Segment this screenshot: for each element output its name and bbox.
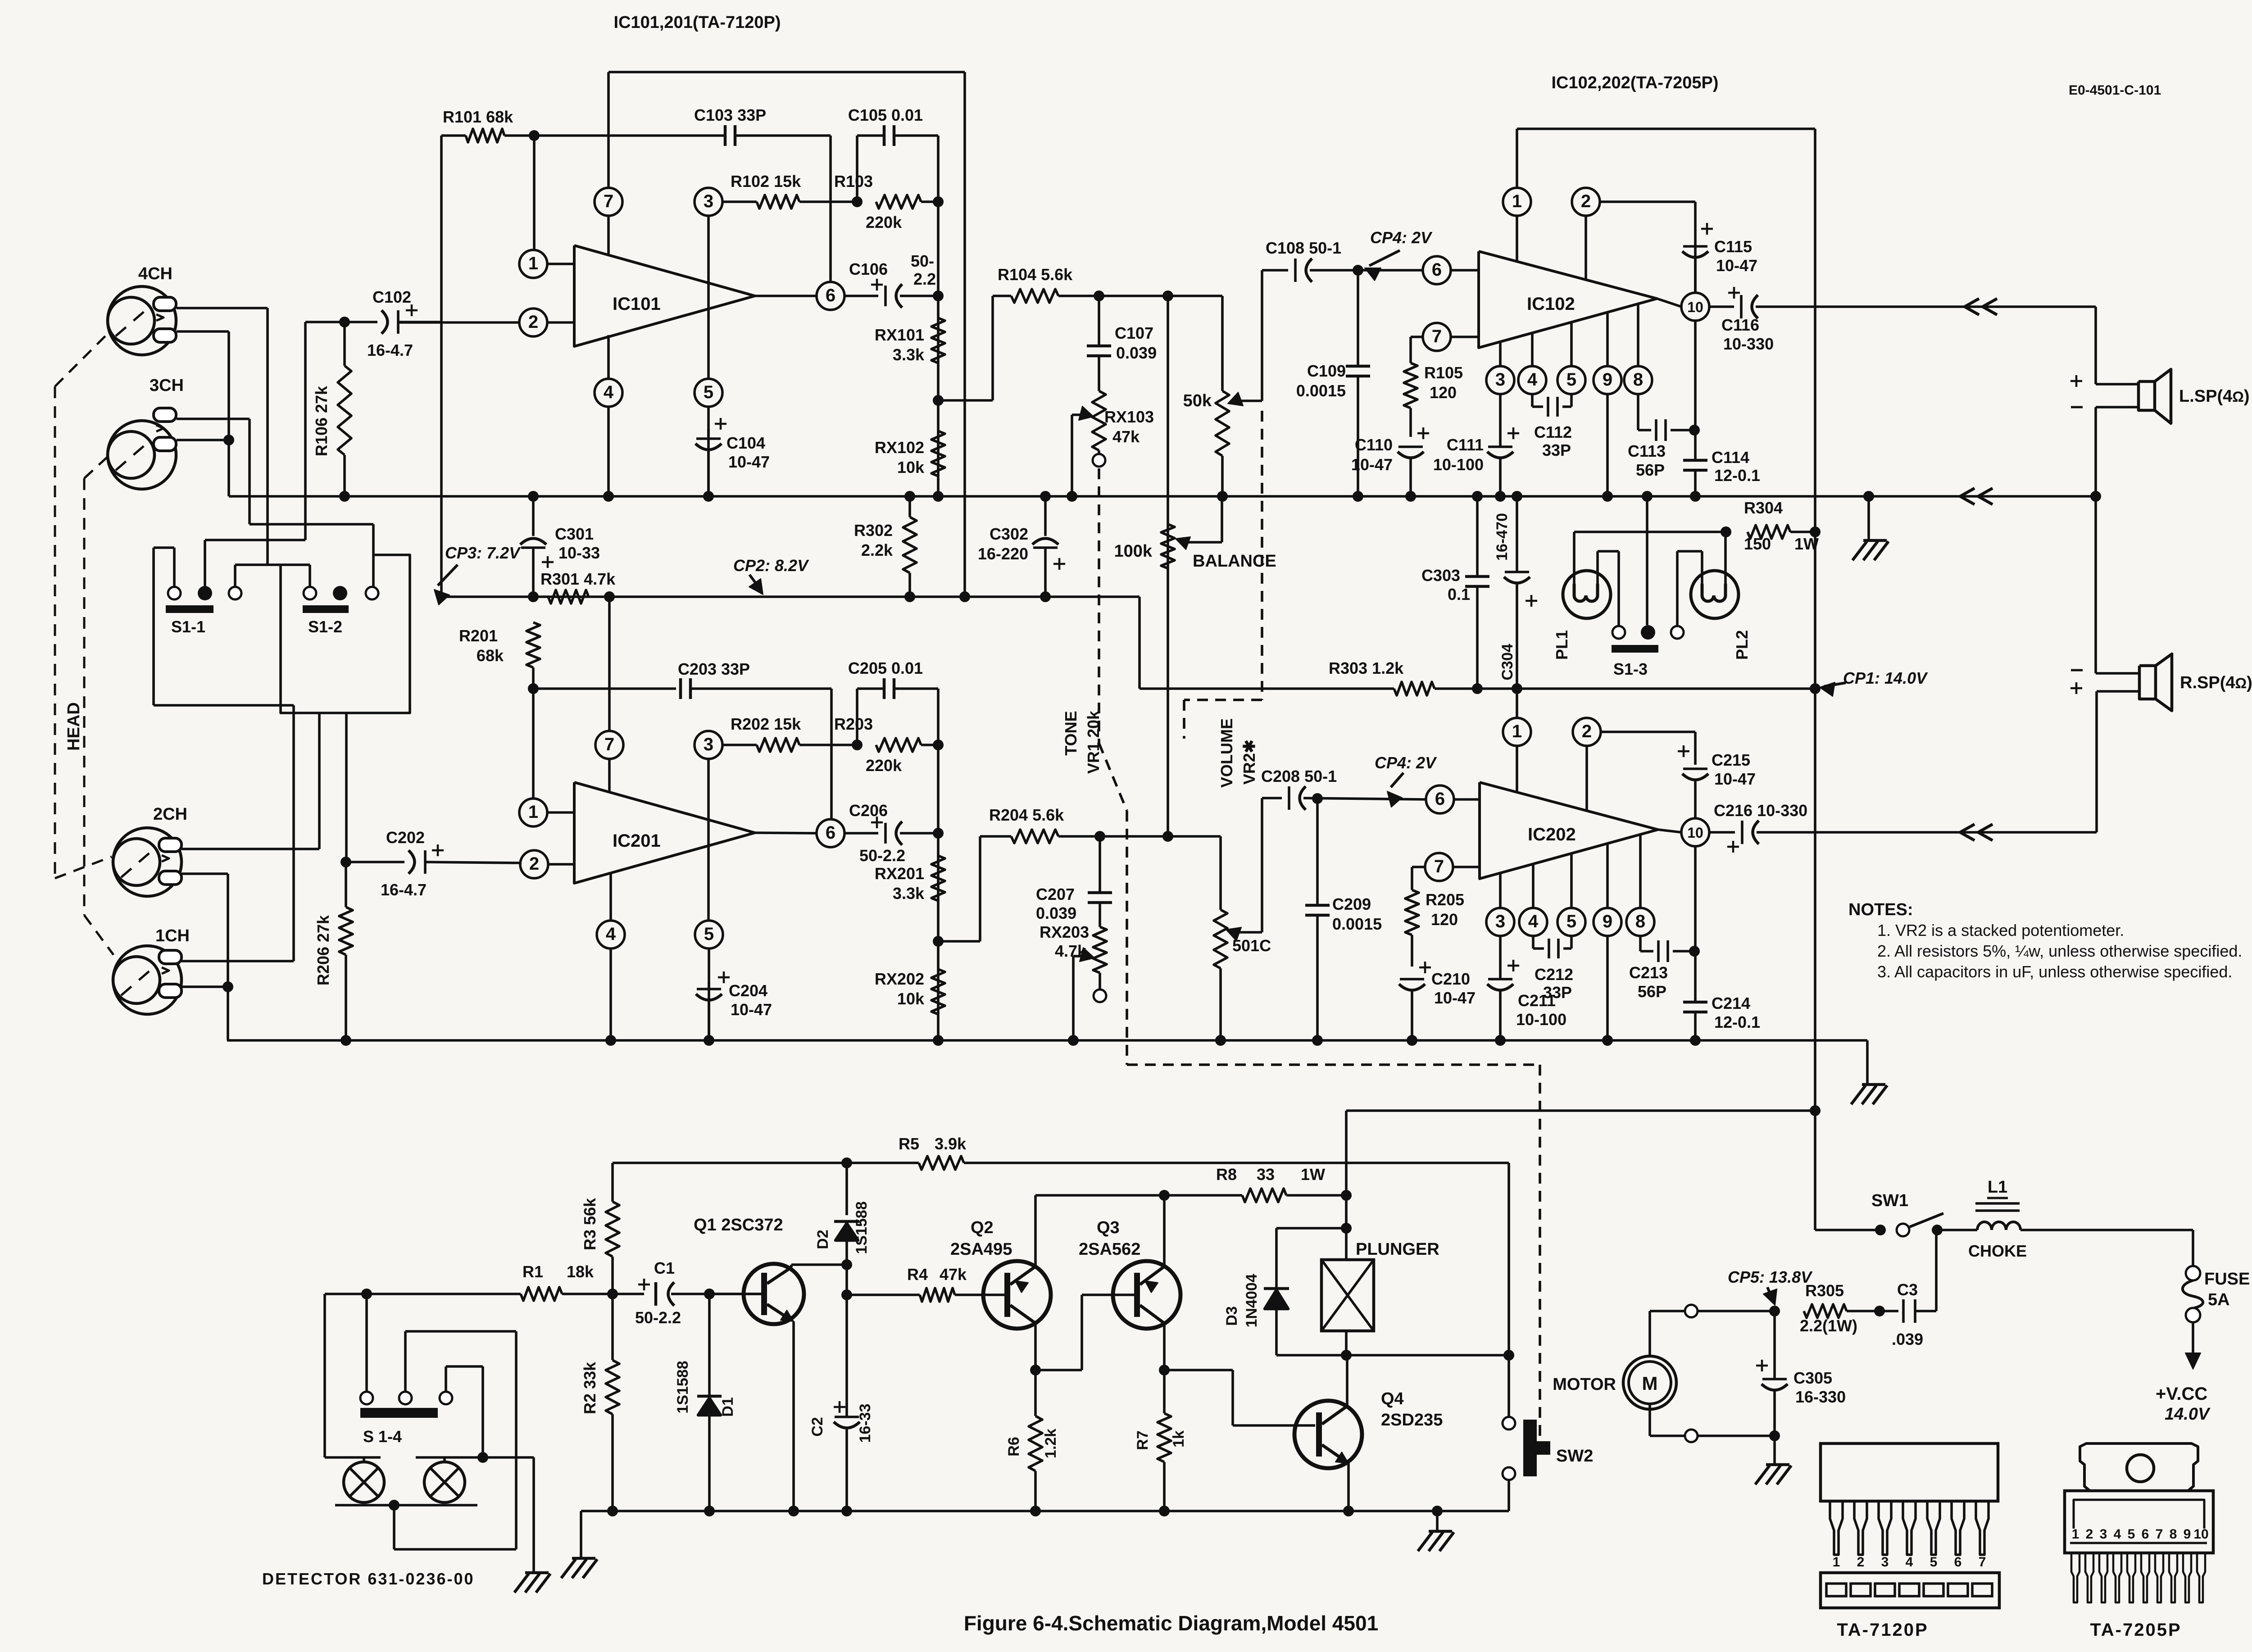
svg-text:1: 1 xyxy=(1512,191,1522,211)
node pin7 rail xyxy=(604,591,615,602)
connector chevrons upper bus xyxy=(1960,488,1993,504)
node R101-pin1 junction xyxy=(529,130,540,141)
svg-text:220k: 220k xyxy=(866,756,902,775)
node S1-4 tap xyxy=(361,1289,372,1299)
svg-text:33: 33 xyxy=(1257,1165,1275,1184)
ground upper bus xyxy=(1852,496,1889,560)
svg-text:12-0.1: 12-0.1 xyxy=(1714,466,1760,485)
svg-text:2: 2 xyxy=(528,312,538,332)
label 14.0V xyxy=(2165,1405,2211,1424)
transistor Q3 2SA562 xyxy=(1079,1195,1180,1370)
svg-text:L1: L1 xyxy=(1988,1178,2007,1197)
potentiometer RX103 tone upper xyxy=(1092,391,1154,467)
pin 7 IC202 xyxy=(1412,853,1480,890)
svg-text:IC102: IC102 xyxy=(1527,294,1575,314)
resistor R202 xyxy=(722,715,857,752)
pin 6 IC102 xyxy=(1423,256,1479,284)
diode D1 1S1588 xyxy=(674,1294,736,1511)
svg-text:10-33: 10-33 xyxy=(558,544,600,562)
wire R204 out xyxy=(1100,831,1221,842)
op-amp IC202 xyxy=(1480,782,1658,879)
pin 3 IC102 xyxy=(1486,342,1514,447)
title IC102,202 xyxy=(1551,73,1718,92)
svg-text:2.2: 2.2 xyxy=(913,270,936,288)
svg-text:C111: C111 xyxy=(1447,436,1484,454)
node box edge rail xyxy=(959,591,970,602)
svg-text:16-4.7: 16-4.7 xyxy=(381,880,427,899)
svg-text:5: 5 xyxy=(1566,370,1576,390)
pin 9 IC102 xyxy=(1594,312,1621,496)
figure title xyxy=(964,1611,1378,1635)
svg-text:C2: C2 xyxy=(809,1417,826,1436)
svg-text:R8: R8 xyxy=(1216,1165,1237,1184)
wire S1-4 left riser xyxy=(365,1294,368,1392)
wire PL2 left lead xyxy=(1677,551,1702,626)
switch S1-3 xyxy=(1612,625,1684,678)
capacitor C216 xyxy=(1709,801,2097,853)
pin 10 IC102 xyxy=(1657,243,1709,321)
svg-text:14.0V: 14.0V xyxy=(2165,1405,2211,1424)
svg-text:1k: 1k xyxy=(1170,1430,1187,1448)
svg-text:C213: C213 xyxy=(1629,963,1668,982)
capacitor C114 xyxy=(1683,448,1760,496)
svg-text:10: 10 xyxy=(1687,299,1703,315)
svg-text:C1: C1 xyxy=(654,1259,675,1277)
node C3 left xyxy=(1874,1306,1885,1316)
pin 5 IC202 xyxy=(1557,854,1585,949)
pin 9 IC202 xyxy=(1594,844,1621,1040)
svg-text:5: 5 xyxy=(704,382,713,402)
note 3 xyxy=(1877,962,2232,981)
svg-text:3CH: 3CH xyxy=(150,376,184,395)
svg-text:120: 120 xyxy=(1431,910,1458,929)
svg-text:PL2: PL2 xyxy=(1733,630,1751,660)
svg-text:E0-4501-C-101: E0-4501-C-101 xyxy=(2069,83,2161,98)
node R304 left xyxy=(1721,526,1731,537)
capacitor C115 xyxy=(1682,223,1757,293)
pin 6 IC101 xyxy=(755,282,844,310)
node R8 right xyxy=(1341,1190,1352,1201)
resistor R105 xyxy=(1404,363,1463,437)
capacitor C301 xyxy=(520,496,600,597)
wire 1CH lower xyxy=(182,985,228,988)
svg-text:1CH: 1CH xyxy=(155,926,190,945)
speaker R.SP xyxy=(2070,496,2252,832)
pin 8 IC202 xyxy=(1626,835,1654,951)
pin 5 IC102 xyxy=(1557,322,1585,407)
svg-text:1: 1 xyxy=(528,802,538,822)
ground lower bus xyxy=(1851,1040,1887,1104)
pin 7 IC201 xyxy=(595,731,623,792)
wire plunger to SW2 xyxy=(1346,1350,1514,1361)
svg-text:RX101: RX101 xyxy=(875,326,924,344)
label NOTES xyxy=(1848,900,1913,919)
resistor R7 xyxy=(1134,1370,1187,1511)
svg-text:2: 2 xyxy=(529,854,539,874)
svg-text:10k: 10k xyxy=(897,989,925,1008)
svg-text:10-47: 10-47 xyxy=(1351,455,1393,474)
resistor R3 xyxy=(581,1163,619,1289)
label TONE VR1 xyxy=(1062,710,1103,774)
pin 2 IC201 xyxy=(520,850,574,878)
svg-text:R7: R7 xyxy=(1134,1430,1151,1450)
wire lamp top right leg xyxy=(416,1457,534,1573)
capacitor C214 xyxy=(1683,994,1760,1040)
svg-text:PLUNGER: PLUNGER xyxy=(1356,1240,1439,1259)
svg-text:16-330: 16-330 xyxy=(1795,1388,1846,1406)
svg-text:C209: C209 xyxy=(1332,895,1371,913)
wire pin10 down lower xyxy=(1694,846,1697,1002)
wire R8 rail xyxy=(1035,1194,1164,1197)
svg-text:5: 5 xyxy=(2128,1527,2135,1542)
svg-text:IC101,201(TA-7120P): IC101,201(TA-7120P) xyxy=(613,13,781,32)
svg-text:MOTOR: MOTOR xyxy=(1553,1375,1616,1394)
wiper 100k balance xyxy=(1176,496,1222,549)
svg-text:R105: R105 xyxy=(1424,363,1463,382)
connector chevrons R.SP line xyxy=(1960,824,1993,840)
svg-text:D3: D3 xyxy=(1223,1306,1240,1325)
node C302 bottom xyxy=(1040,591,1051,602)
lamp PL1 xyxy=(1553,571,1611,660)
node R1 out xyxy=(607,1289,618,1299)
capacitor C213 xyxy=(1629,940,1694,1001)
svg-text:9: 9 xyxy=(1603,912,1612,931)
resistor RX202 xyxy=(875,969,945,1014)
svg-text:R5: R5 xyxy=(899,1135,919,1153)
switch S1-2 xyxy=(303,586,378,636)
svg-text:4: 4 xyxy=(606,924,616,944)
pin 10 IC202 xyxy=(1658,818,1709,846)
svg-text:RX102: RX102 xyxy=(875,438,924,457)
svg-text:16-33: 16-33 xyxy=(857,1404,874,1443)
wire C102 input line xyxy=(305,321,345,323)
svg-text:10-47: 10-47 xyxy=(1714,770,1756,788)
pin 4 IC102 xyxy=(1518,333,1546,407)
wiper 501C xyxy=(1226,798,1262,941)
svg-text:RX103: RX103 xyxy=(1104,408,1154,426)
node R206 top xyxy=(341,857,351,867)
wire selector box xyxy=(281,555,410,713)
svg-text:C104: C104 xyxy=(726,434,765,452)
tape head 3CH xyxy=(108,376,184,489)
wire PL1 left lead xyxy=(1573,532,1575,584)
svg-text:2SA495: 2SA495 xyxy=(950,1240,1012,1259)
capacitor C107 xyxy=(1087,296,1157,391)
svg-text:R302: R302 xyxy=(854,521,893,540)
svg-text:C203 33P: C203 33P xyxy=(678,660,750,678)
svg-text:10-47: 10-47 xyxy=(728,453,770,471)
svg-text:R303 1.2k: R303 1.2k xyxy=(1329,659,1404,677)
resistor R5 xyxy=(847,1135,1509,1170)
transistor Q1 2SC372 xyxy=(694,1216,847,1511)
resistor R304 xyxy=(1744,499,1819,553)
checkpoint CP5 xyxy=(1728,1268,1813,1305)
svg-text:+V.CC: +V.CC xyxy=(2156,1384,2207,1404)
svg-text:S1-1: S1-1 xyxy=(171,617,205,636)
svg-text:C106: C106 xyxy=(849,260,888,278)
resistor R8 xyxy=(1164,1165,1346,1202)
svg-text:TA-7205P: TA-7205P xyxy=(2090,1620,2181,1640)
node R8 left xyxy=(1159,1190,1170,1201)
svg-text:6: 6 xyxy=(1435,789,1445,809)
node C303 bottom xyxy=(1472,683,1483,694)
svg-text:R205: R205 xyxy=(1426,890,1464,909)
svg-text:R103: R103 xyxy=(834,172,873,191)
pin 1 IC101 xyxy=(519,250,574,278)
resistor R106 xyxy=(312,322,351,496)
svg-text:9: 9 xyxy=(1603,370,1612,390)
wiper RX203 xyxy=(1073,948,1094,1040)
capacitor C215 xyxy=(1678,745,1756,818)
svg-text:5: 5 xyxy=(1930,1555,1938,1570)
node Q1 collector xyxy=(841,1259,852,1270)
capacitor C113 xyxy=(1628,419,1694,479)
svg-text:3.3k: 3.3k xyxy=(893,345,925,364)
label HEAD xyxy=(64,702,83,751)
wire C202 riser xyxy=(345,713,348,862)
svg-text:47k: 47k xyxy=(1112,427,1140,446)
svg-text:IC202: IC202 xyxy=(1528,825,1576,844)
wire S1-4 mid riser xyxy=(394,1331,516,1549)
capacitor C116 xyxy=(1709,287,2096,353)
capacitor C209 xyxy=(1305,799,1382,1040)
svg-text:2SD235: 2SD235 xyxy=(1381,1411,1443,1430)
svg-text:5A: 5A xyxy=(2208,1290,2230,1309)
potentiometer 501C volume lower xyxy=(1214,836,1271,1040)
capacitor C108 xyxy=(1262,239,1358,282)
svg-text:C305: C305 xyxy=(1793,1369,1832,1387)
IC package TA-7205P xyxy=(2065,1443,2213,1640)
relay PLUNGER xyxy=(1321,1228,1439,1355)
resistor R203 xyxy=(834,715,938,775)
wiper 50k volume xyxy=(1228,270,1262,406)
svg-text:501C: 501C xyxy=(1232,936,1271,955)
svg-text:C102: C102 xyxy=(372,288,411,306)
wire relay feed riser xyxy=(1346,1111,1816,1195)
svg-text:C103 33P: C103 33P xyxy=(694,106,766,124)
resistor RX101 xyxy=(875,318,945,364)
svg-text:4: 4 xyxy=(1527,370,1538,390)
svg-text:S1-2: S1-2 xyxy=(308,617,342,636)
svg-text:10-47: 10-47 xyxy=(1434,989,1476,1007)
svg-text:10-100: 10-100 xyxy=(1516,1010,1566,1029)
svg-text:7: 7 xyxy=(604,735,614,754)
link VR2 volume dashed xyxy=(1184,411,1262,739)
pin 7 IC101 xyxy=(595,188,622,255)
fuse FUSE 5A xyxy=(2183,1230,2250,1369)
svg-text:56P: 56P xyxy=(1638,982,1666,1001)
pin 1 IC202 xyxy=(1503,689,1531,792)
node plunger bottom xyxy=(1341,1350,1352,1361)
svg-text:R3 56k: R3 56k xyxy=(581,1198,599,1250)
node C108 out xyxy=(1353,265,1363,276)
switch S1-4 xyxy=(360,1392,452,1446)
wire 3CH lower xyxy=(177,439,229,441)
resistor RX201 xyxy=(875,856,945,903)
svg-text:3: 3 xyxy=(704,191,713,211)
svg-text:C205 0.01: C205 0.01 xyxy=(848,659,923,677)
wire 4CH upper to S1 area xyxy=(177,308,310,587)
wire R5 rail xyxy=(613,1162,847,1164)
wire pin1 riser xyxy=(533,136,536,249)
pin 3 IC101 xyxy=(695,188,722,379)
svg-text:R104 5.6k: R104 5.6k xyxy=(998,265,1073,284)
capacitor C206 xyxy=(844,801,938,865)
svg-text:1.2k: 1.2k xyxy=(1042,1429,1059,1458)
node B2 R203 right xyxy=(933,740,944,750)
node C113 out xyxy=(1689,425,1700,436)
wire 4CH lower xyxy=(177,331,229,496)
svg-text:2: 2 xyxy=(1581,191,1591,211)
svg-text:2CH: 2CH xyxy=(153,805,187,824)
wire PL rail xyxy=(1574,531,1726,533)
pin 4 IC101 xyxy=(595,335,622,496)
svg-text:CHOKE: CHOKE xyxy=(1968,1242,2027,1260)
capacitor C202 xyxy=(346,828,520,899)
svg-text:NOTES:: NOTES: xyxy=(1848,900,1913,919)
svg-text:R301 4.7k: R301 4.7k xyxy=(540,570,616,588)
svg-text:4: 4 xyxy=(1528,912,1539,931)
svg-text:Figure 6-4.Schematic Diagram,M: Figure 6-4.Schematic Diagram,Model 4501 xyxy=(964,1611,1378,1635)
svg-text:120: 120 xyxy=(1430,383,1457,402)
wire Q2-Q3 coupling xyxy=(1035,1295,1109,1370)
svg-text:Q2: Q2 xyxy=(971,1218,994,1237)
pin 4 IC201 xyxy=(597,872,625,1040)
node R304 right xyxy=(1810,526,1821,537)
capacitor C304 xyxy=(1494,496,1537,689)
svg-text:C207: C207 xyxy=(1036,885,1075,903)
svg-text:0.039: 0.039 xyxy=(1116,344,1157,362)
node R4 tap xyxy=(841,1265,852,1300)
switch SW2 xyxy=(1503,1417,1593,1511)
svg-text:CP2: 8.2V: CP2: 8.2V xyxy=(733,556,809,575)
svg-text:R.SP(4Ω): R.SP(4Ω) xyxy=(2180,673,2252,692)
capacitor C302 xyxy=(978,496,1065,597)
svg-text:C212: C212 xyxy=(1535,965,1573,984)
svg-text:C301: C301 xyxy=(555,525,594,543)
capacitor C3 xyxy=(1880,1231,1936,1348)
svg-text:C107: C107 xyxy=(1115,324,1153,342)
svg-text:S 1-4: S 1-4 xyxy=(363,1427,402,1446)
svg-text:0.0015: 0.0015 xyxy=(1296,381,1346,400)
svg-text:6: 6 xyxy=(1954,1555,1962,1570)
wire pin2 input xyxy=(398,321,519,324)
wire motor bus xyxy=(581,1506,1509,1516)
svg-text:R203: R203 xyxy=(834,715,873,733)
switch S1-1 xyxy=(166,586,241,636)
svg-text:3: 3 xyxy=(2100,1527,2107,1542)
svg-text:L.SP(4Ω): L.SP(4Ω) xyxy=(2179,387,2250,406)
ground detector xyxy=(514,1573,550,1593)
svg-text:1. VR2 is a stacked potentiome: 1. VR2 is a stacked potentiometer. xyxy=(1877,921,2124,939)
svg-text:C304: C304 xyxy=(1499,644,1516,680)
svg-text:16-470: 16-470 xyxy=(1494,513,1511,561)
svg-text:10-47: 10-47 xyxy=(731,1000,772,1019)
svg-text:100k: 100k xyxy=(1114,542,1152,561)
wire S1-1 right jumper xyxy=(235,565,268,587)
pin 1 IC201 xyxy=(519,689,574,826)
svg-text:2: 2 xyxy=(1582,722,1592,741)
svg-text:7: 7 xyxy=(2156,1527,2163,1542)
svg-text:16-4.7: 16-4.7 xyxy=(367,341,413,359)
svg-text:3: 3 xyxy=(704,735,713,754)
resistor R303 xyxy=(1329,659,1815,695)
pin 8 IC102 xyxy=(1624,304,1652,430)
svg-text:7: 7 xyxy=(604,191,613,211)
tape head 1CH xyxy=(113,926,190,1014)
svg-text:1: 1 xyxy=(1512,722,1522,741)
op-amp IC101 xyxy=(574,245,755,346)
svg-text:.039: .039 xyxy=(1892,1330,1923,1348)
potentiometer 50k volume upper xyxy=(1183,296,1229,496)
pin 2 IC102 xyxy=(1572,188,1695,280)
potentiometer RX203 tone lower xyxy=(1040,923,1107,1002)
title IC101,201 xyxy=(613,13,781,32)
node RX201-RX202 xyxy=(933,936,944,947)
svg-text:18k: 18k xyxy=(567,1262,594,1281)
capacitor C102 xyxy=(345,288,441,359)
svg-text:RX201: RX201 xyxy=(875,864,924,883)
svg-text:0.0015: 0.0015 xyxy=(1332,915,1382,933)
svg-text:R102 15k: R102 15k xyxy=(731,172,801,191)
lamp PL2 xyxy=(1691,571,1751,660)
capacitor C303 xyxy=(1421,496,1489,689)
wire 2CH upper riser xyxy=(182,713,319,849)
resistor R305 xyxy=(1800,1281,1880,1335)
node R106 top xyxy=(339,317,350,327)
capacitor C104 xyxy=(695,418,770,496)
transistor Q4 2SD235 xyxy=(1294,1355,1443,1511)
svg-text:R1: R1 xyxy=(522,1262,543,1281)
node C304 bottom xyxy=(1512,683,1522,694)
svg-text:Q1 2SC372: Q1 2SC372 xyxy=(694,1216,783,1234)
svg-text:3: 3 xyxy=(1495,370,1505,390)
node A2 R203 left xyxy=(852,740,863,750)
svg-text:6: 6 xyxy=(826,823,835,843)
wire motor bottom lead xyxy=(1650,1404,1775,1442)
svg-text:R6: R6 xyxy=(1005,1437,1022,1456)
wire IC101 box top xyxy=(608,72,965,597)
doc number E0-4501-C-101 xyxy=(2069,83,2161,98)
capacitor C110 xyxy=(1351,427,1429,496)
checkpoint CP1 xyxy=(1820,669,1928,696)
pin 3 IC202 xyxy=(1486,873,1514,979)
ground SW2 xyxy=(1418,1511,1454,1551)
capacitor C210 xyxy=(1399,962,1476,1040)
svg-text:2SA562: 2SA562 xyxy=(1079,1240,1140,1259)
svg-text:10-47: 10-47 xyxy=(1716,256,1757,275)
svg-text:Q4: Q4 xyxy=(1381,1389,1404,1408)
checkpoint CP3 xyxy=(434,544,521,605)
switch SW1 xyxy=(1871,1191,1977,1236)
svg-text:R201: R201 xyxy=(459,626,498,645)
svg-text:8: 8 xyxy=(2170,1527,2177,1542)
wire S1-3 common riser xyxy=(1646,496,1648,625)
node C106 out xyxy=(933,290,944,301)
svg-text:C302: C302 xyxy=(990,525,1028,543)
svg-text:12-0.1: 12-0.1 xyxy=(1714,1013,1760,1031)
wire R201 top xyxy=(528,683,539,694)
label +V.CC xyxy=(2156,1384,2207,1404)
svg-text:2.2k: 2.2k xyxy=(861,541,893,559)
svg-text:3. All capacitors in uF, unles: 3. All capacitors in uF, unless otherwis… xyxy=(1877,962,2232,981)
svg-text:4CH: 4CH xyxy=(138,264,173,283)
svg-text:R304: R304 xyxy=(1744,499,1783,517)
svg-text:5: 5 xyxy=(704,924,714,944)
pin 7 IC102 xyxy=(1411,323,1479,363)
svg-text:R2 33k: R2 33k xyxy=(581,1362,599,1414)
connector chevrons L.SP line xyxy=(1965,299,1997,315)
